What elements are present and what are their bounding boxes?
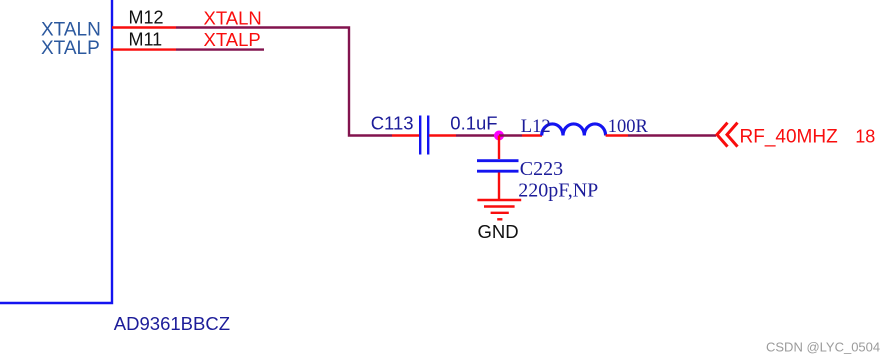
svg-text:M12: M12 <box>129 8 164 28</box>
svg-text:L12: L12 <box>521 117 551 137</box>
wire net XTALN (top, from pin M12 to C113) <box>176 28 392 136</box>
wire C113 to junction <box>456 134 499 136</box>
inductor L12 right pin stub <box>606 134 628 136</box>
port RF_40MHZ chevrons <box>717 123 738 147</box>
wire C223 to ground <box>498 173 500 200</box>
capacitor C223 plates <box>477 161 519 172</box>
svg-text:C223: C223 <box>520 158 563 180</box>
wire junction to L12 <box>499 134 522 136</box>
inductor L12 left pin stub <box>522 134 542 136</box>
pin M11 <box>112 48 176 50</box>
svg-text:XTALP: XTALP <box>204 29 261 50</box>
inductor L12 coils <box>542 124 606 136</box>
ground symbol <box>477 200 521 219</box>
svg-text:18: 18 <box>855 127 875 147</box>
svg-text:AD9361BBCZ: AD9361BBCZ <box>114 313 230 334</box>
capacitor C113 left pin stub <box>392 134 419 136</box>
svg-text:CSDN @LYC_0504: CSDN @LYC_0504 <box>766 340 880 355</box>
capacitor C113 right pin stub <box>429 134 456 136</box>
svg-text:100R: 100R <box>608 117 649 137</box>
pin M12 <box>112 26 176 28</box>
wire net XTALP (from pin M11) <box>176 48 264 50</box>
IC U? AD9361BBCZ body outline <box>0 0 112 303</box>
wire junction down to C223 <box>498 136 500 160</box>
wire L12 to port <box>628 134 716 136</box>
svg-text:XTALN: XTALN <box>204 7 262 28</box>
svg-text:M11: M11 <box>129 29 163 49</box>
capacitor C113 plates <box>420 116 428 155</box>
svg-text:220pF,NP: 220pF,NP <box>518 180 598 202</box>
svg-text:0.1uF: 0.1uF <box>450 112 497 133</box>
svg-text:GND: GND <box>478 221 519 242</box>
svg-text:XTALP: XTALP <box>41 38 100 59</box>
svg-text:RF_40MHZ: RF_40MHZ <box>740 127 839 148</box>
junction node (magenta dot) <box>494 131 504 141</box>
svg-text:C113: C113 <box>371 112 414 133</box>
